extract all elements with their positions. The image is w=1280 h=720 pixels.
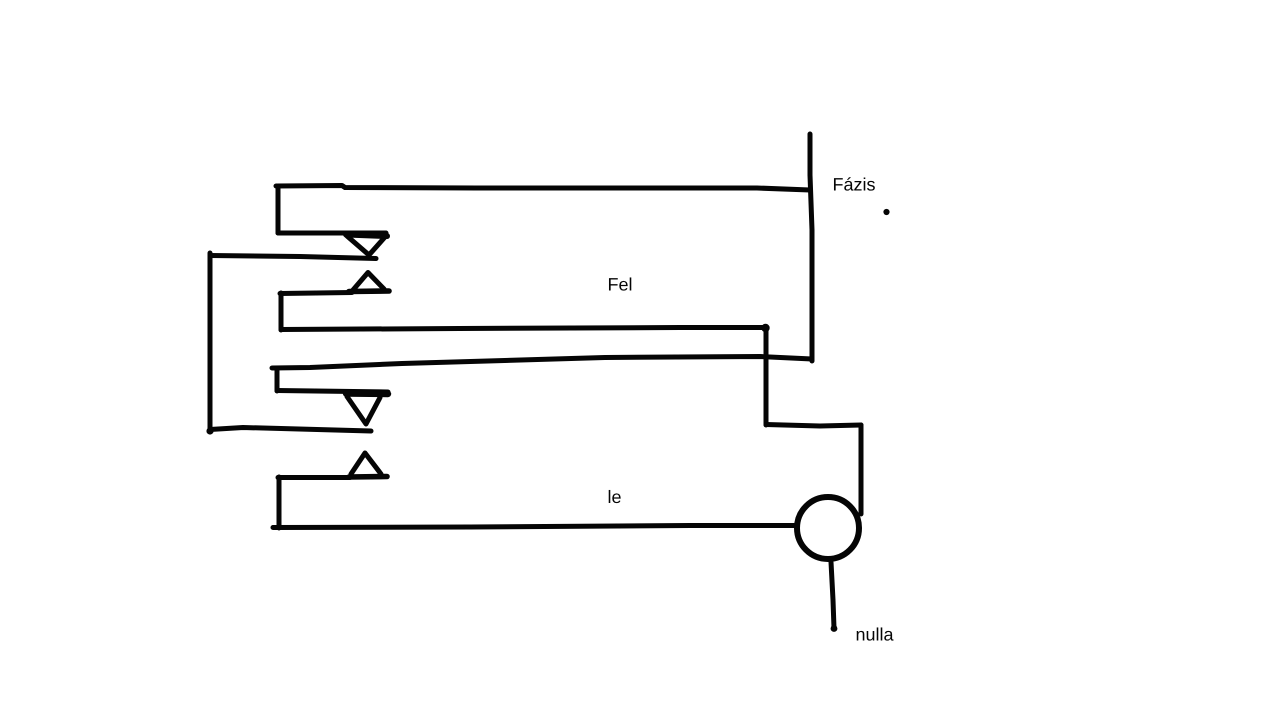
svg-text:Fázis: Fázis: [833, 175, 876, 195]
svg-text:Fel: Fel: [608, 275, 633, 295]
svg-text:nulla: nulla: [856, 625, 895, 645]
svg-text:le: le: [608, 487, 622, 507]
